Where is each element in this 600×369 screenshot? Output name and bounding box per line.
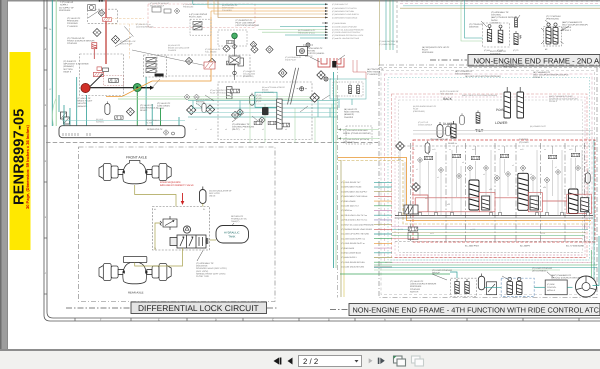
svg-text:B: B bbox=[328, 319, 330, 322]
svg-text:POST RIDE B: POST RIDE B bbox=[367, 71, 381, 74]
svg-text:FULL BRAKE: FULL BRAKE bbox=[205, 50, 217, 53]
section left border bbox=[396, 0, 398, 54]
svg-text:REAR AXLE: REAR AXLE bbox=[128, 291, 144, 295]
svg-text:STEERING: STEERING bbox=[67, 22, 78, 25]
viewer left gray strip bbox=[0, 0, 8, 350]
toolbar next-page button (disabled) bbox=[369, 358, 373, 363]
svg-text:(C) MAIN BATTERY xx: (C) MAIN BATTERY xx bbox=[379, 40, 398, 43]
dark pump bottle bbox=[262, 107, 269, 115]
svg-text:LEVER 3: LEVER 3 bbox=[491, 21, 500, 24]
svg-text:(C) ASSEMBLY OF: (C) ASSEMBLY OF bbox=[196, 262, 215, 265]
coupler capsule pair bbox=[544, 27, 562, 47]
swash diagonal bbox=[90, 74, 103, 87]
pilot chain bbox=[229, 39, 240, 80]
brake relief label bbox=[77, 97, 93, 108]
svg-text:(C) PASSING SENSE LOAD SENSE: (C) PASSING SENSE LOAD SENSE bbox=[341, 228, 373, 231]
charge valve box bbox=[88, 9, 118, 23]
svg-text:(B) VALVE OF: (B) VALVE OF bbox=[344, 108, 358, 111]
svg-text:TANK: TANK bbox=[228, 236, 235, 239]
label column wires bbox=[374, 182, 392, 267]
filter diamond 2 bbox=[93, 29, 101, 37]
svg-text:PILOT LINES: PILOT LINES bbox=[189, 16, 202, 19]
svg-text:CONTROL: CONTROL bbox=[547, 286, 556, 289]
labels bbox=[469, 11, 588, 32]
orange crossing line bbox=[106, 17, 211, 97]
ride accumulator bbox=[478, 274, 484, 290]
aux valve box bbox=[104, 76, 124, 86]
svg-text:(C) TANK PICK UP: (C) TANK PICK UP bbox=[430, 138, 448, 141]
brake valve pair bbox=[61, 112, 70, 124]
tilt cyl labels bbox=[430, 138, 529, 145]
svg-text:(C) PUMP OF: (C) PUMP OF bbox=[63, 60, 77, 63]
motor column bbox=[227, 87, 233, 99]
svg-text:SWASHER: SWASHER bbox=[490, 53, 501, 56]
pilot capsule bbox=[105, 101, 110, 114]
banner: 4th function title bbox=[330, 304, 600, 316]
section dividers bbox=[410, 143, 584, 243]
svg-text:(DIFF LOCK): (DIFF LOCK) bbox=[196, 270, 209, 273]
svg-text:(C) COUPLER: (C) COUPLER bbox=[469, 23, 483, 26]
svg-text:SCENE 3: SCENE 3 bbox=[549, 100, 557, 103]
svg-text:PRESSURE: PRESSURE bbox=[422, 51, 434, 54]
svg-text:B3_TV-3000 BARS: B3_TV-3000 BARS bbox=[566, 245, 584, 248]
bundle wires bbox=[193, 0, 328, 38]
svg-text:(C) LOAD SENSE PILOT xx: (C) LOAD SENSE PILOT xx bbox=[341, 242, 365, 245]
svg-text:(C) SHUT OIL (UNLOAD) PRESSURE: (C) SHUT OIL (UNLOAD) PRESSURE bbox=[332, 28, 364, 31]
svg-text:x22: x22 bbox=[447, 203, 450, 206]
svg-text:(C) LINES: (C) LINES bbox=[519, 141, 529, 144]
svg-text:(C) VALVE OF: (C) VALVE OF bbox=[140, 104, 154, 107]
svg-text:(PRESSURE): (PRESSURE) bbox=[503, 66, 516, 69]
svg-text:(B&C) COUPLER GROUP: (B&C) COUPLER GROUP bbox=[491, 16, 516, 19]
toolbar prev-page button bbox=[288, 358, 293, 365]
leader diagonals 2 bbox=[205, 95, 330, 121]
svg-text:(C) and OIL UNLOAD FAST BAS: (C) and OIL UNLOAD FAST BAS bbox=[332, 37, 360, 40]
svg-text:(C) MAIN SUPPLY: (C) MAIN SUPPLY bbox=[341, 256, 357, 259]
return line pale green bbox=[55, 0, 57, 126]
reservoir bbox=[59, 126, 185, 138]
small comps scattered bbox=[417, 157, 422, 162]
svg-text:HYDRAULIC: HYDRAULIC bbox=[224, 232, 240, 235]
svg-text:COUPLER: COUPLER bbox=[67, 42, 78, 45]
svg-text:(C) MAIN DRAIN: (C) MAIN DRAIN bbox=[332, 22, 347, 25]
svg-text:RACK: RACK bbox=[443, 97, 453, 101]
banner: 2nd-3rd function title bbox=[430, 55, 600, 67]
svg-text:(PRESSURE): (PRESSURE) bbox=[546, 18, 559, 21]
svg-text:CYLINDER: CYLINDER bbox=[367, 73, 378, 76]
svg-text:(C) LINES MAIN SUPPLY xx: (C) LINES MAIN SUPPLY xx bbox=[341, 237, 365, 240]
connector labels box bbox=[255, 92, 277, 107]
svg-text:B2: B2 bbox=[545, 48, 547, 51]
aux red spool bbox=[204, 62, 215, 69]
svg-text:CYLINDER: CYLINDER bbox=[67, 25, 78, 28]
svg-text:RETURN OF: RETURN OF bbox=[231, 215, 244, 218]
svg-text:(B&C) CHAMBER OF: (B&C) CHAMBER OF bbox=[551, 274, 572, 277]
svg-text:x7: x7 bbox=[555, 166, 557, 169]
svg-text:(JOYSTICK) WHEEL: (JOYSTICK) WHEEL bbox=[305, 52, 325, 55]
svg-text:(C) VALVE OF: (C) VALVE OF bbox=[67, 17, 81, 20]
svg-text:NORMAL FRONT (DIFF LOCK): NORMAL FRONT (DIFF LOCK) bbox=[196, 272, 226, 275]
suction line teal bbox=[51, 0, 53, 126]
svg-text:TILT RET: TILT RET bbox=[519, 138, 529, 141]
svg-text:xx 305: xx 305 bbox=[470, 228, 475, 231]
svg-text:(B) FOLD HOLD A PAY TILT xx: (B) FOLD HOLD A PAY TILT xx bbox=[341, 214, 367, 217]
viewer top edge strip bbox=[0, 0, 600, 2]
dashed line under banner bbox=[379, 67, 600, 69]
svg-text:SUPPLY: SUPPLY bbox=[60, 4, 69, 7]
hoist box comps bbox=[152, 7, 161, 12]
svg-text:(B) CHAMBER OF: (B) CHAMBER OF bbox=[533, 71, 551, 74]
stacked shift valves bbox=[514, 16, 517, 27]
bundle labels bbox=[332, 3, 398, 46]
left margin line bbox=[337, 65, 339, 298]
reducing valve bbox=[160, 216, 177, 230]
red pump circle bbox=[81, 83, 90, 92]
svg-text:PRESSURE: PRESSURE bbox=[410, 285, 422, 288]
toolbar first-page button bbox=[274, 358, 282, 365]
svg-text:(B) SEQUENCE PICK UP OF: (B) SEQUENCE PICK UP OF bbox=[422, 46, 450, 49]
svg-text:(C) T1: (C) T1 bbox=[256, 100, 261, 103]
svg-text:(B&C) CHAMBER OF: (B&C) CHAMBER OF bbox=[562, 21, 583, 24]
svg-text:ONLY (COUPLER GROUP) (COUPLE: ONLY (COUPLER GROUP) (COUPLE bbox=[533, 74, 569, 77]
inner pump valve red bbox=[93, 72, 103, 76]
solenoid valve box bbox=[483, 23, 510, 47]
svg-text:(C) CASE DRAIN RETURN: (C) CASE DRAIN RETURN bbox=[341, 266, 365, 269]
svg-text:(C) ASSEMBLY OF: (C) ASSEMBLY OF bbox=[491, 11, 510, 14]
svg-text:CLOSE TYPE: CLOSE TYPE bbox=[196, 275, 210, 278]
svg-text:(C) 3RD LOWER: (C) 3RD LOWER bbox=[341, 200, 356, 203]
svg-text:SHOW: SHOW bbox=[491, 19, 498, 22]
valve outlet labels bbox=[196, 262, 227, 278]
svg-text:CASE DRAIN: CASE DRAIN bbox=[157, 105, 170, 108]
svg-text:B1_3000 PSIG: B1_3000 PSIG bbox=[465, 245, 479, 248]
bank pilot rails bbox=[413, 130, 593, 132]
svg-text:PRESSURE: PRESSURE bbox=[183, 5, 194, 8]
svg-text:RESERVOIR OF: RESERVOIR OF bbox=[147, 128, 163, 131]
pilot teal bus bbox=[188, 101, 338, 118]
filter diamond 3 bbox=[112, 36, 120, 44]
svg-text:GROUND (COUPLER GROUP): GROUND (COUPLER GROUP) bbox=[551, 277, 581, 280]
diff lock section border bbox=[79, 147, 276, 302]
hoist valve box bbox=[157, 55, 250, 76]
svg-text:SOLENOID VALVE (DIFF LOCK): SOLENOID VALVE (DIFF LOCK) bbox=[196, 267, 227, 270]
svg-text:(C) IMPLEMENT 2ND SUPPLY: (C) IMPLEMENT 2ND SUPPLY bbox=[341, 190, 368, 193]
svg-text:(C) 2 CAPSULE: (C) 2 CAPSULE bbox=[546, 15, 562, 18]
svg-text:xx: xx bbox=[498, 149, 500, 151]
svg-text:(C) IMPLEMENT RETURN: (C) IMPLEMENT RETURN bbox=[332, 10, 355, 13]
nested routing rects bbox=[381, 71, 595, 295]
svg-text:PRESSURE: PRESSURE bbox=[67, 20, 79, 23]
extra teal horizontals bbox=[62, 113, 338, 121]
svg-text:A1: A1 bbox=[154, 208, 156, 211]
right edge risers bbox=[593, 140, 595, 279]
bank internal verticals bbox=[400, 150, 588, 216]
pump pair box blue bbox=[501, 278, 534, 296]
pilot pump green circle bbox=[232, 33, 238, 39]
leader diagonals bbox=[432, 272, 554, 280]
svg-text:TANK(C): TANK(C) bbox=[231, 220, 240, 223]
pale green bus bbox=[118, 98, 320, 100]
bottom exit lines bbox=[374, 265, 597, 270]
label column bbox=[341, 181, 375, 269]
svg-text:A (C) LINE GROUP: A (C) LINE GROUP bbox=[189, 13, 208, 16]
svg-text:(C) CAPSULE OF: (C) CAPSULE OF bbox=[503, 63, 520, 66]
svg-text:(COUPLE: (COUPLE bbox=[562, 26, 572, 29]
svg-text:RELIEF GROUP: RELIEF GROUP bbox=[150, 4, 165, 7]
svg-text:(C) SUPPORT OF: (C) SUPPORT OF bbox=[236, 19, 254, 22]
svg-text:(C) SHUT OIL LOAD AND PRESSURE: (C) SHUT OIL LOAD AND PRESSURE bbox=[341, 223, 375, 226]
green return arc bbox=[52, 98, 56, 126]
ride valve side box bbox=[346, 126, 372, 144]
svg-text:(A) FOLD BANK A RAY TILT xx: (A) FOLD BANK A RAY TILT xx bbox=[341, 219, 367, 222]
svg-text:(C) 2ND RAISE: (C) 2ND RAISE bbox=[341, 247, 355, 250]
svg-text:PISTON: PISTON bbox=[196, 101, 204, 104]
pilot solenoid cluster bbox=[330, 79, 366, 99]
svg-text:STEER PUMP: STEER PUMP bbox=[120, 42, 133, 45]
svg-text:(PRESSURE): (PRESSURE) bbox=[413, 110, 425, 113]
bracket arrows bbox=[541, 28, 564, 44]
spool group 3 bbox=[569, 189, 579, 214]
diff lock valve box bbox=[153, 207, 210, 251]
svg-text:(B) CYLINDER OF: (B) CYLINDER OF bbox=[455, 70, 473, 73]
accumulator capsule bbox=[200, 190, 207, 204]
tilt cluster box bbox=[218, 30, 247, 46]
spool group 2 bbox=[518, 173, 529, 210]
svg-text:NON-ENGINE END FRAME - 4TH FUN: NON-ENGINE END FRAME - 4TH FUNCTION WITH… bbox=[353, 305, 600, 314]
pilot cluster box bbox=[190, 19, 211, 35]
mid filter diamonds bbox=[187, 105, 196, 114]
svg-text:MACHINE/SERVICE: MACHINE/SERVICE bbox=[136, 25, 154, 28]
svg-text:(C) LOAD SENSE RETURN: (C) LOAD SENSE RETURN bbox=[341, 261, 365, 264]
svg-text:(C) CASE LOADS PILOT SUPPLY: (C) CASE LOADS PILOT SUPPLY bbox=[332, 31, 361, 34]
extra texture labels 4th bbox=[398, 90, 578, 206]
svg-text:(C) SUPPLY OF: (C) SUPPLY OF bbox=[59, 6, 75, 9]
main relief red line bbox=[105, 0, 107, 18]
svg-text:(C) IMPLEMENT MAIN DRAIN: (C) IMPLEMENT MAIN DRAIN bbox=[332, 17, 358, 20]
svg-text:SWITCH: SWITCH bbox=[410, 290, 419, 293]
svg-text:(C) LINES COUPLER: (C) LINES COUPLER bbox=[432, 269, 453, 272]
diff lock spool valve bbox=[170, 235, 208, 248]
svg-text:A: A bbox=[384, 319, 386, 322]
svg-text:(C) T3: (C) T3 bbox=[513, 49, 518, 52]
svg-text:RELIEF: RELIEF bbox=[140, 109, 148, 112]
svg-text:WHEEL (COUPLER GROUP): WHEEL (COUPLER GROUP) bbox=[343, 132, 371, 135]
pump shaft bbox=[90, 87, 133, 89]
svg-text:(B) CONTROL OF: (B) CONTROL OF bbox=[367, 68, 385, 71]
svg-text:D: D bbox=[215, 319, 217, 322]
teal riser bbox=[333, 72, 335, 268]
svg-text:BRAKE RELIEF: BRAKE RELIEF bbox=[77, 100, 93, 103]
toolbar snapshot icons bbox=[394, 356, 406, 366]
pump label bbox=[63, 60, 89, 73]
connecting lines bbox=[135, 185, 216, 266]
labels mid bbox=[140, 98, 255, 131]
pilot valve red bbox=[92, 43, 97, 49]
svg-text:(C) VALVE OF: (C) VALVE OF bbox=[157, 102, 171, 105]
svg-text:RIDE CONTROL: RIDE CONTROL bbox=[344, 111, 361, 114]
svg-text:x23: x23 bbox=[489, 188, 492, 191]
leader diagonals bbox=[88, 10, 244, 122]
toolbar bbox=[0, 349, 600, 369]
svg-text:(C) 2ND MAIN TILT: (C) 2ND MAIN TILT bbox=[332, 3, 349, 6]
svg-text:DUMP xx: DUMP xx bbox=[448, 142, 458, 145]
svg-text:SECTION: SECTION bbox=[63, 68, 73, 71]
svg-text:x3: x3 bbox=[462, 161, 464, 164]
svg-text:(C) IMPLEMENT LOAD SUPPLY: (C) IMPLEMENT LOAD SUPPLY bbox=[332, 13, 360, 16]
svg-text:x4: x4 bbox=[483, 173, 485, 176]
banner: differential lock circuit bbox=[66, 302, 277, 314]
hydraulic tank bbox=[216, 226, 249, 244]
svg-text:MOUNTING: MOUNTING bbox=[196, 265, 208, 268]
svg-text:(C) LINES COUPLER: (C) LINES COUPLER bbox=[532, 267, 553, 270]
orange feed bbox=[338, 158, 591, 221]
svg-text:FILTER: FILTER bbox=[146, 121, 153, 124]
svg-text:P1: P1 bbox=[203, 208, 205, 211]
svg-text:x4: x4 bbox=[243, 128, 245, 131]
motor hatch column bbox=[277, 99, 282, 129]
svg-text:DIFFERENTIAL LOCK CIRCUIT: DIFFERENTIAL LOCK CIRCUIT bbox=[138, 303, 259, 313]
texture labels bbox=[49, 2, 316, 124]
svg-text:COUPLER: COUPLER bbox=[410, 288, 421, 291]
svg-text:x21: x21 bbox=[425, 197, 428, 200]
breather circle bbox=[88, 5, 96, 11]
svg-text:(C) VALVE OF: (C) VALVE OF bbox=[410, 280, 424, 283]
svg-text:x2: x2 bbox=[210, 128, 212, 131]
svg-text:(BRAKES): (BRAKES) bbox=[344, 113, 354, 116]
svg-text:x3: x3 bbox=[225, 128, 227, 131]
svg-text:x6: x6 bbox=[285, 128, 287, 131]
leader diagonals bbox=[481, 15, 569, 31]
svg-text:CYLINDER: CYLINDER bbox=[222, 9, 232, 12]
rack capsule bbox=[437, 122, 443, 138]
svg-text:(COUPLER): (COUPLER) bbox=[343, 141, 355, 144]
yellow product label strip bbox=[10, 52, 31, 250]
solenoid valve 2 bbox=[498, 28, 503, 43]
svg-text:x24: x24 bbox=[543, 186, 546, 189]
relief box bbox=[487, 282, 497, 295]
rear axle bbox=[99, 257, 171, 284]
svg-text:(HELIOS): (HELIOS) bbox=[77, 102, 86, 105]
bottom diamonds row bbox=[223, 45, 230, 52]
toolbar page combo box bbox=[299, 356, 362, 367]
spool group 1 bbox=[469, 180, 479, 210]
svg-text:FRONT AXLE: FRONT AXLE bbox=[126, 156, 148, 160]
svg-text:ONLY (COUPLER GROUP): ONLY (COUPLER GROUP) bbox=[562, 24, 588, 27]
nested rect bottom bundle bbox=[387, 253, 591, 263]
outer border bbox=[379, 65, 597, 298]
svg-text:TIED LOADING: TIED LOADING bbox=[440, 92, 454, 95]
svg-text:(C) CASE LOADS UP BRUSH: (C) CASE LOADS UP BRUSH bbox=[332, 26, 358, 29]
svg-text:T (C) LINE AS: T (C) LINE AS bbox=[60, 1, 74, 4]
svg-text:(COUPLER): (COUPLER) bbox=[243, 75, 254, 78]
svg-text:(C) IMPLEMENT CASE DRAIN: (C) IMPLEMENT CASE DRAIN bbox=[341, 195, 368, 198]
svg-text:E: E bbox=[158, 319, 160, 322]
svg-text:x1: x1 bbox=[195, 128, 197, 131]
pump group box bbox=[80, 54, 124, 96]
svg-text:x6: x6 bbox=[530, 173, 532, 176]
svg-text:IMPLEMENT PRIORITY VALVE: IMPLEMENT PRIORITY VALVE bbox=[160, 184, 194, 187]
bank micro labels bbox=[398, 148, 587, 235]
svg-text:SCENE 3: SCENE 3 bbox=[533, 76, 543, 79]
hoist red dashed box bbox=[148, 4, 255, 28]
top comps row bbox=[424, 156, 432, 160]
svg-text:(C) LINES UP SUPPLY RETURN: (C) LINES UP SUPPLY RETURN bbox=[341, 233, 370, 236]
red main line lower bbox=[105, 22, 107, 65]
svg-text:MACHINE: MACHINE bbox=[469, 26, 479, 29]
svg-text:(B&C) LINES UP PLATFORM (GROUN: (B&C) LINES UP PLATFORM (GROUND) bbox=[462, 94, 497, 97]
ride solenoid box bbox=[451, 278, 477, 296]
coupling label bbox=[67, 37, 95, 45]
svg-text:PRESSURE (FULL): PRESSURE (FULL) bbox=[298, 31, 315, 34]
svg-text:PILOT LINE GROUP: PILOT LINE GROUP bbox=[236, 22, 256, 25]
top routing rails bbox=[398, 1, 600, 8]
svg-text:x5: x5 bbox=[262, 128, 264, 131]
border tick marks bbox=[44, 28, 579, 321]
tank label bbox=[231, 215, 248, 223]
green pump circle bbox=[133, 84, 141, 92]
bank top stems bbox=[429, 146, 576, 155]
red links bbox=[412, 195, 567, 212]
port labels bbox=[484, 48, 547, 52]
hoist diamonds bbox=[185, 57, 192, 64]
svg-text:TIED LOADING: TIED LOADING bbox=[455, 73, 470, 76]
sway link diagonals bbox=[288, 68, 299, 105]
svg-text:PILOT: PILOT bbox=[422, 49, 429, 52]
svg-text:x5: x5 bbox=[512, 164, 514, 167]
svg-text:(B) LOWER PILOT: (B) LOWER PILOT bbox=[530, 125, 547, 128]
svg-text:LOWER: LOWER bbox=[495, 121, 508, 125]
svg-text:xx 118: xx 118 bbox=[540, 232, 545, 235]
svg-text:B2_300PS: B2_300PS bbox=[520, 245, 531, 248]
svg-text:(C) ROAD xx: (C) ROAD xx bbox=[341, 209, 352, 212]
valve bank frame bbox=[395, 145, 593, 147]
svg-text:30 Page, (Dimension: 59 Inches: 30 Page, (Dimension: 59 Inches x 36 Inch… bbox=[25, 125, 30, 209]
svg-text:(C) VALVE OF: (C) VALVE OF bbox=[77, 97, 91, 100]
cluster labels bbox=[189, 13, 259, 27]
svg-text:CONTROL: CONTROL bbox=[491, 14, 502, 17]
svg-text:PRESSURE: PRESSURE bbox=[59, 9, 71, 12]
arrow labels left bbox=[343, 129, 371, 144]
small red comp bbox=[97, 67, 102, 71]
svg-text:IMPLEMENT & STEERING: IMPLEMENT & STEERING bbox=[63, 63, 89, 66]
relief valve red bbox=[103, 18, 112, 22]
svg-text:VALVE: VALVE bbox=[209, 195, 216, 198]
toolbar last-page button bbox=[378, 358, 385, 364]
zone numerals bbox=[45, 48, 386, 322]
svg-text:KNEE PILOT: KNEE PILOT bbox=[285, 58, 297, 61]
svg-text:C: C bbox=[272, 319, 274, 322]
svg-text:FILTER: FILTER bbox=[157, 107, 165, 110]
section bottom labels bbox=[465, 245, 584, 248]
tan pressure dashed lines bbox=[107, 19, 144, 60]
bottom bus bbox=[395, 215, 593, 217]
svg-text:xx 201: xx 201 bbox=[398, 228, 403, 231]
svg-text:LINES (COUPLER GROUP): LINES (COUPLER GROUP) bbox=[410, 283, 437, 286]
svg-text:(PILOT): (PILOT) bbox=[232, 128, 240, 131]
svg-text:SCREEN: SCREEN bbox=[96, 120, 105, 123]
green riser bbox=[335, 80, 337, 268]
svg-text:(C) P2: (C) P2 bbox=[256, 97, 261, 100]
svg-text:2 / 2: 2 / 2 bbox=[303, 357, 318, 366]
solenoid block left bbox=[404, 205, 418, 214]
spool stack box bbox=[144, 55, 167, 77]
olive margin risers bbox=[340, 160, 342, 297]
green pump drop bbox=[136, 92, 138, 126]
gauge box bbox=[297, 47, 308, 56]
control box bbox=[545, 280, 567, 295]
front axle bbox=[99, 161, 171, 184]
check diamond top bbox=[396, 142, 405, 151]
